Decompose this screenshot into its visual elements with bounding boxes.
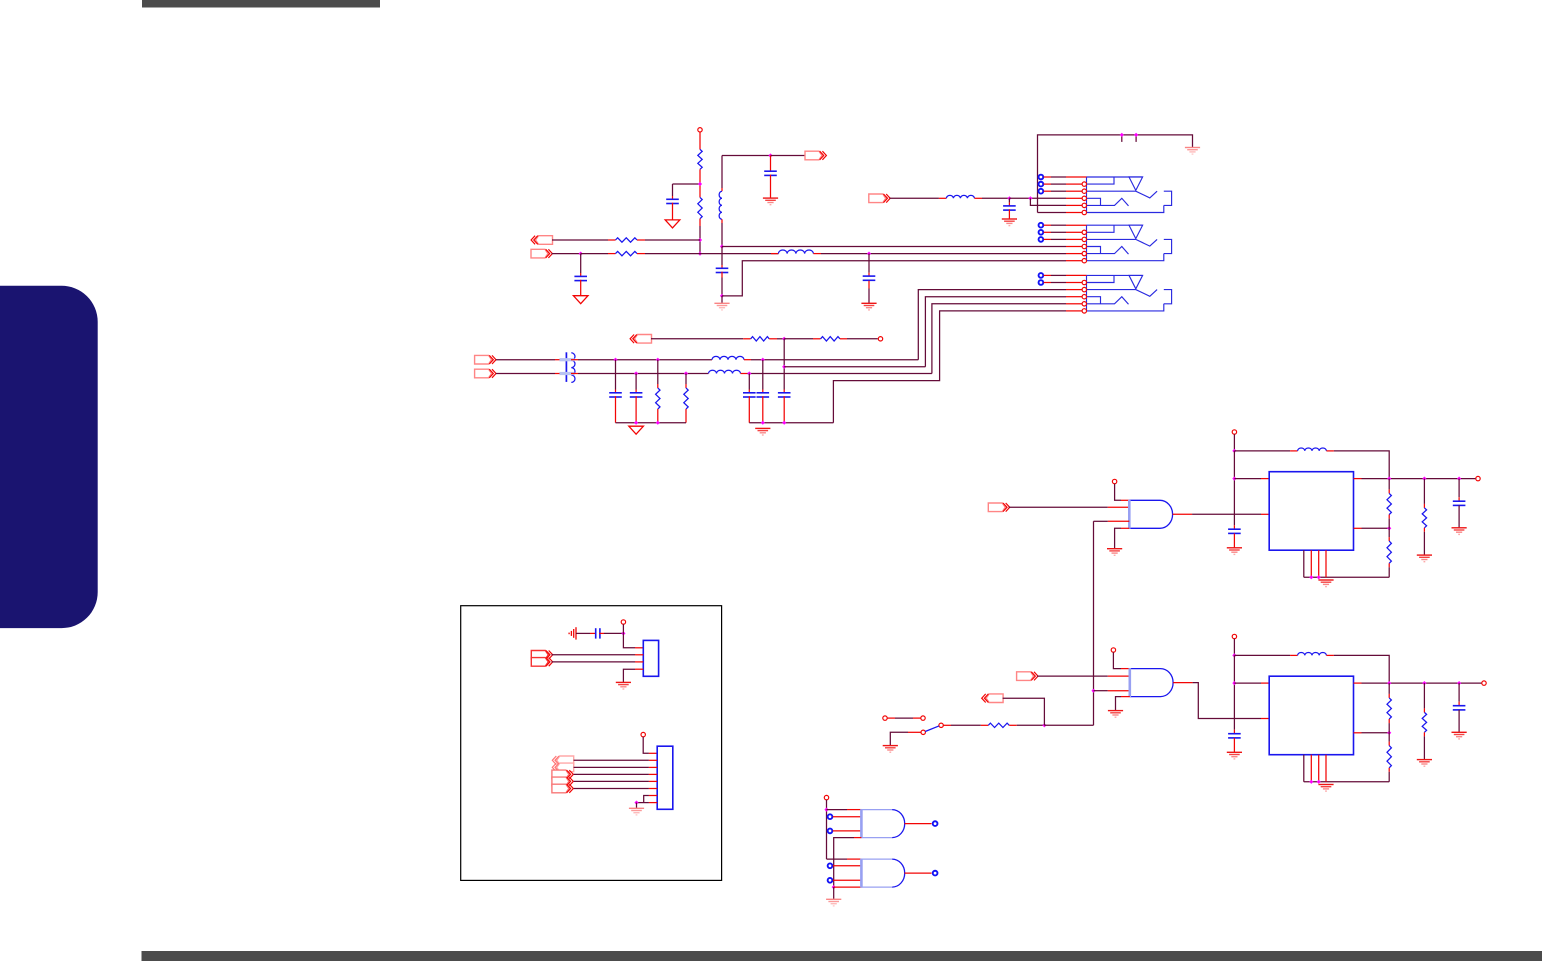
gate U3B output xyxy=(905,872,932,874)
node xyxy=(761,421,765,425)
wire xyxy=(574,788,649,790)
wire xyxy=(1113,652,1121,668)
wire xyxy=(1003,698,1045,725)
IC lower-right pin wire xyxy=(1354,732,1362,734)
wire xyxy=(636,803,638,809)
top gray bar xyxy=(142,0,380,8)
jack pin socket xyxy=(1039,189,1044,194)
node xyxy=(579,252,583,256)
node xyxy=(656,358,660,362)
wire xyxy=(552,253,581,255)
jack pin xyxy=(1082,244,1086,248)
node xyxy=(1422,681,1426,685)
power node spare xyxy=(824,795,828,799)
wire xyxy=(777,338,784,340)
IC bottom pins xyxy=(1303,550,1305,577)
port AMP_EN flag xyxy=(1017,672,1034,681)
capacitor Cv xyxy=(1228,528,1241,530)
ground xyxy=(1417,759,1432,761)
power node xyxy=(878,337,882,341)
header J10 xyxy=(643,640,658,676)
node xyxy=(824,808,828,812)
jack pin xyxy=(1082,203,1086,207)
wire VCC xyxy=(1233,434,1235,451)
node xyxy=(1232,477,1236,481)
ground xyxy=(1107,548,1122,550)
wire xyxy=(635,668,643,670)
spare gate input socket xyxy=(828,829,833,834)
jack pin xyxy=(1082,237,1086,241)
wire IC out right xyxy=(1354,478,1362,480)
wire jack2 row6 xyxy=(722,261,1066,296)
capacitor C20 xyxy=(576,632,590,634)
and-gate U3B xyxy=(892,859,905,887)
node xyxy=(1232,449,1236,453)
node xyxy=(1309,575,1313,579)
wire to jack3 row6 (shield) xyxy=(833,311,1066,423)
port SPDIF flag xyxy=(635,335,652,344)
gate ground pin xyxy=(1121,527,1129,529)
port LINE1 flag xyxy=(475,355,492,364)
node xyxy=(1422,477,1426,481)
ground xyxy=(1185,147,1200,149)
node xyxy=(782,421,786,425)
wire mid tap xyxy=(783,339,785,367)
left navy tab xyxy=(0,286,98,628)
wire VCC rail xyxy=(1234,450,1290,452)
IC U amplifier xyxy=(1269,472,1353,551)
wire jack1 row6 xyxy=(1038,212,1067,214)
spare gate input socket xyxy=(828,863,833,868)
jack pin socket xyxy=(1039,230,1044,235)
gate2 ground pin xyxy=(1121,696,1130,698)
capacitor C2 xyxy=(580,273,582,276)
node xyxy=(1457,681,1461,685)
port flag pair xyxy=(531,651,548,660)
wire to jack3 row4 xyxy=(925,297,1066,367)
and-gate U2B xyxy=(1161,669,1174,697)
jack connector body xyxy=(1086,275,1088,311)
wire xyxy=(1017,724,1045,726)
resistor Rb xyxy=(1388,733,1390,742)
jack pin xyxy=(1082,210,1086,214)
node xyxy=(634,421,638,425)
wire xyxy=(827,858,848,860)
port LINE2 flag xyxy=(475,369,492,378)
output socket xyxy=(933,871,938,876)
wire xyxy=(496,373,555,375)
power node OUT xyxy=(1482,681,1486,685)
wire xyxy=(645,239,700,241)
jack pin socket xyxy=(1039,237,1044,242)
switch SW1 xyxy=(883,716,887,720)
resistor R3 xyxy=(608,239,616,241)
power node xyxy=(641,732,645,736)
inductor L11 xyxy=(707,373,710,375)
port flag trio xyxy=(552,770,569,779)
jack pin socket xyxy=(1039,223,1044,228)
jack pin xyxy=(1082,189,1086,193)
wire ground bus xyxy=(616,422,687,424)
IC U amplifier xyxy=(1269,676,1353,755)
wire xyxy=(1304,781,1389,783)
inductor L3 xyxy=(939,197,947,199)
node xyxy=(761,358,765,362)
wire xyxy=(699,226,701,254)
ground xyxy=(1227,751,1242,753)
wire xyxy=(574,759,649,761)
power node xyxy=(621,620,625,624)
wire xyxy=(826,800,828,859)
node xyxy=(720,294,724,298)
wire xyxy=(700,253,778,255)
wire xyxy=(574,766,649,768)
wire xyxy=(1304,576,1389,578)
node xyxy=(747,371,751,375)
wire xyxy=(574,773,649,775)
ground xyxy=(1417,554,1432,556)
jack pin socket xyxy=(1039,273,1044,278)
ground xyxy=(575,627,577,639)
capacitor C6 xyxy=(1008,198,1010,202)
bottom gray bar xyxy=(142,951,1542,961)
wire to jack3 row3 xyxy=(918,290,1066,360)
port OUT flag xyxy=(771,155,806,157)
node xyxy=(1232,653,1236,657)
wire ground bus 2 xyxy=(749,422,833,424)
resistor Ra xyxy=(1388,479,1390,490)
wire xyxy=(722,155,771,157)
inductor L1 vertical feed xyxy=(721,156,723,189)
wire switch ground xyxy=(908,731,921,733)
wire to jack3 row5 xyxy=(932,304,1066,374)
wire top rail xyxy=(1038,135,1193,213)
wire gate2 input2 xyxy=(1094,690,1108,692)
node xyxy=(1028,196,1032,200)
node xyxy=(832,885,836,889)
detail box frame xyxy=(461,606,722,881)
capacitor C12 xyxy=(762,360,764,390)
node xyxy=(768,153,772,157)
jack pin xyxy=(1082,287,1086,291)
wire VCC xyxy=(1233,639,1235,656)
resistor R20 xyxy=(981,724,989,726)
jack connector body xyxy=(1086,177,1088,213)
power node gate VCC xyxy=(1112,479,1116,483)
wire xyxy=(1233,655,1235,729)
wire xyxy=(649,795,657,797)
wire xyxy=(552,654,636,656)
wire xyxy=(982,197,1009,199)
port PWR_EN flag xyxy=(988,503,1005,512)
wire xyxy=(721,296,723,303)
power node VCC xyxy=(1232,430,1236,434)
wire xyxy=(1234,682,1261,684)
node xyxy=(1457,477,1461,481)
IC bottom pins xyxy=(1303,755,1305,782)
wire xyxy=(552,239,608,241)
node xyxy=(698,238,702,242)
capacitor C13 xyxy=(748,374,750,390)
node xyxy=(1007,196,1011,200)
wire xyxy=(571,373,578,375)
inductor L10 xyxy=(711,359,714,361)
capacitor C14 xyxy=(783,367,785,390)
ground xyxy=(573,296,588,304)
wire xyxy=(943,724,951,726)
wire xyxy=(747,373,932,375)
node xyxy=(782,337,786,341)
spare gate input socket xyxy=(828,878,833,883)
resistor R13 xyxy=(784,338,813,340)
capacitor C4 xyxy=(721,265,723,268)
power node P1 xyxy=(698,128,702,132)
wire xyxy=(1009,506,1108,508)
header J11 xyxy=(657,746,673,809)
node xyxy=(1309,780,1313,784)
coupled inductor T1 xyxy=(565,352,567,382)
wire xyxy=(890,197,939,199)
wire xyxy=(623,633,635,647)
jack pin xyxy=(1082,182,1086,186)
resistor R4 xyxy=(581,253,608,255)
node xyxy=(1317,575,1321,579)
wire jack1 row5 xyxy=(1030,198,1066,205)
spare gate input socket xyxy=(828,814,833,819)
wire jack2 row4 xyxy=(722,246,1066,248)
resistor R11 xyxy=(685,374,687,385)
gate U2A output xyxy=(1173,513,1193,515)
wire xyxy=(1115,484,1121,501)
resistor R10 xyxy=(657,360,659,384)
wire xyxy=(643,737,649,754)
ground xyxy=(763,197,778,199)
node xyxy=(1387,477,1391,481)
gate U3A ground pin xyxy=(854,837,861,839)
port IN_L flag xyxy=(536,236,553,245)
wire xyxy=(496,359,555,361)
inductor Lv xyxy=(1290,450,1298,452)
net tie xyxy=(1121,135,1123,142)
wire VCC rail xyxy=(1234,654,1290,656)
node xyxy=(634,801,638,805)
wire xyxy=(1044,724,1093,726)
power node VCC xyxy=(1232,634,1236,638)
node xyxy=(1317,780,1321,784)
ground xyxy=(629,426,644,434)
jack pin xyxy=(1082,309,1086,313)
port MIC flag xyxy=(869,194,886,203)
ground xyxy=(665,220,680,228)
capacitor C3 xyxy=(770,156,772,172)
wire xyxy=(827,809,848,811)
node xyxy=(1387,681,1391,685)
node xyxy=(634,371,638,375)
ground xyxy=(883,745,898,747)
jack connector body xyxy=(1086,225,1088,261)
port flag pair pale xyxy=(557,756,574,765)
wire xyxy=(552,661,636,663)
node xyxy=(1091,689,1095,693)
power node OUT xyxy=(1476,476,1480,480)
node xyxy=(684,371,688,375)
node xyxy=(698,182,702,186)
ground xyxy=(826,898,841,900)
power node gate2 VCC xyxy=(1111,648,1115,652)
ground xyxy=(1002,218,1017,220)
ground xyxy=(1318,579,1333,581)
jack pin xyxy=(1082,295,1086,299)
and-gate U3A xyxy=(892,810,905,838)
ground xyxy=(616,681,631,683)
capacitor C10 xyxy=(615,360,617,390)
ground xyxy=(1227,547,1242,549)
wire xyxy=(834,886,862,888)
ground xyxy=(1452,731,1467,733)
wire xyxy=(1009,197,1066,199)
ground xyxy=(755,427,770,429)
wire xyxy=(751,359,918,361)
gate U2B output xyxy=(1173,682,1193,684)
node xyxy=(621,631,625,635)
capacitor C5 xyxy=(868,254,870,273)
wire xyxy=(833,887,835,899)
wire xyxy=(847,338,878,340)
jack pin xyxy=(1082,251,1086,255)
ground xyxy=(1318,784,1333,786)
wire xyxy=(651,338,743,340)
jack pin socket xyxy=(1039,182,1044,187)
ground xyxy=(714,302,729,304)
node xyxy=(1042,723,1046,727)
wire xyxy=(721,247,723,266)
wire xyxy=(1334,451,1389,479)
node xyxy=(1232,681,1236,685)
IC lower-right pin wire xyxy=(1354,527,1362,529)
wire xyxy=(1037,675,1108,677)
jack pin xyxy=(1082,259,1086,263)
resistor Rc xyxy=(1423,683,1425,708)
wire xyxy=(649,802,657,804)
jack pin socket xyxy=(1039,280,1044,285)
and-gate U2A xyxy=(1160,500,1173,528)
wire xyxy=(645,253,700,255)
wire xyxy=(1234,478,1261,480)
ground xyxy=(1108,710,1123,712)
node xyxy=(867,252,871,256)
wire IC out right xyxy=(1354,682,1362,684)
gate input 2 wire xyxy=(1108,520,1130,522)
ground xyxy=(1452,527,1467,529)
wire xyxy=(673,183,701,185)
gate U3A output xyxy=(905,823,932,825)
node xyxy=(1387,731,1391,735)
capacitor C1 xyxy=(672,196,674,199)
wire xyxy=(574,780,649,782)
resistor Rb xyxy=(1388,528,1390,537)
inductor Lv xyxy=(1290,654,1298,656)
ground xyxy=(629,807,644,809)
wire xyxy=(1334,655,1389,683)
output socket xyxy=(933,821,938,826)
capacitor Cc xyxy=(1458,479,1460,498)
wire xyxy=(571,359,578,361)
resistor R2 xyxy=(699,184,701,197)
node xyxy=(720,244,724,248)
node xyxy=(1387,526,1391,530)
node xyxy=(698,252,702,256)
net tie xyxy=(1135,135,1137,142)
port MUTE flag xyxy=(986,694,1003,703)
jack pin xyxy=(1082,302,1086,306)
ground xyxy=(861,302,876,304)
capacitor C11 xyxy=(635,374,637,390)
jack pin xyxy=(1082,230,1086,234)
wire xyxy=(1233,451,1235,525)
wire xyxy=(580,254,582,273)
node xyxy=(656,421,660,425)
capacitor Cv xyxy=(1228,733,1241,735)
inductor L2 xyxy=(771,253,778,255)
port IN_R flag xyxy=(531,249,548,258)
node xyxy=(613,358,617,362)
jack pin socket xyxy=(1039,175,1044,180)
resistor Ra xyxy=(1388,683,1390,694)
jack pin xyxy=(1082,280,1086,284)
jack pin xyxy=(1082,196,1086,200)
resistor R1 xyxy=(698,149,702,169)
wire long vertical xyxy=(1093,521,1095,725)
capacitor Cc xyxy=(1458,683,1460,702)
resistor Rc xyxy=(1423,479,1425,504)
wire jack2 row5 xyxy=(821,253,1066,255)
resistor R12 xyxy=(743,338,751,340)
